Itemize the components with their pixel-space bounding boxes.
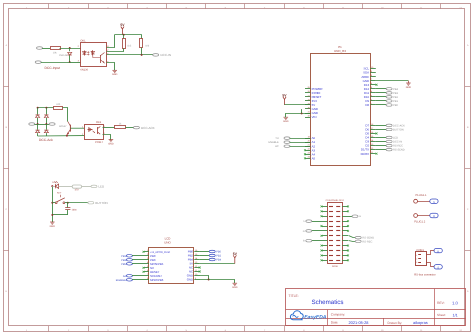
svg-text:AC: AC	[275, 145, 279, 148]
svg-text:3: 3	[416, 261, 417, 264]
wire gnd stem	[408, 81, 410, 83]
U2 left pins	[143, 249, 171, 282]
wire gnd to P1	[286, 114, 311, 118]
wire U2 GND pins	[200, 276, 209, 280]
svg-text:PB3: PB3	[121, 259, 126, 262]
svg-text:2021-05-28: 2021-05-28	[349, 320, 369, 325]
capacitor C1 100n	[65, 203, 77, 215]
svg-text:1N4148: 1N4148	[59, 54, 68, 57]
wire R4 to Q1 emitter	[63, 108, 68, 122]
svg-text:PB3: PB3	[393, 92, 398, 95]
wire Q1 collector	[66, 134, 68, 136]
wire to BUTTON flag	[68, 202, 88, 204]
svg-text:RS-SEND: RS-SEND	[393, 149, 405, 152]
svg-text:KEY: KEY	[57, 192, 62, 195]
svg-text:BUTTON: BUTTON	[393, 128, 404, 131]
svg-text:Schematics: Schematics	[312, 299, 344, 306]
svg-text:G: G	[303, 230, 305, 233]
svg-text:ENABLE: ENABLE	[268, 141, 279, 144]
wire bottom rail	[38, 135, 84, 137]
node junction	[45, 123, 47, 125]
net flags U2 left bottom	[116, 275, 144, 282]
node junction	[301, 112, 303, 114]
svg-text:TH: TH	[275, 137, 279, 140]
ground	[108, 140, 114, 146]
svg-text:PB4: PB4	[216, 259, 221, 262]
title block frame	[286, 289, 466, 326]
net flags U2 right	[200, 250, 222, 261]
svg-text:GND: GND	[232, 286, 238, 289]
svg-text:PC817: PC817	[95, 141, 103, 144]
optocoupler OK2	[82, 121, 105, 144]
net flags D7-D1	[376, 124, 405, 151]
svg-text:Drawn By:: Drawn By:	[388, 321, 403, 325]
svg-text:GND: GND	[187, 278, 193, 282]
connector pin DCC-Ack a	[29, 123, 38, 126]
plug pin PLUG1.2	[414, 214, 418, 218]
wire top rail	[38, 107, 54, 109]
wire CON1 to S port	[427, 263, 435, 267]
wire U2 5V	[200, 263, 235, 265]
EasyEDA logo	[290, 311, 326, 321]
wire U2 gnd run	[209, 280, 235, 284]
svg-text:Date:: Date:	[331, 321, 339, 325]
diode D2	[36, 108, 40, 124]
ground right of P1	[406, 83, 412, 89]
connector pin DCC-Ack b	[46, 123, 55, 126]
wire button left	[52, 202, 55, 204]
diode D5	[44, 124, 48, 136]
5V power flag at P1	[282, 93, 287, 105]
wire gnd pins join	[301, 109, 303, 113]
5V power flag at U2	[233, 252, 238, 264]
ground at P1	[283, 117, 289, 123]
svg-text:BC557: BC557	[59, 125, 67, 128]
wire plug1.2	[418, 215, 430, 217]
diode D3	[44, 108, 48, 124]
no-connect D13	[376, 84, 378, 86]
svg-text:D0/RX: D0/RX	[361, 152, 370, 156]
svg-text:GND: GND	[50, 225, 56, 228]
svg-text:RS-REC: RS-REC	[362, 240, 372, 243]
svg-text:R: R	[433, 215, 435, 218]
wire button right	[65, 202, 68, 204]
node junction output	[141, 54, 143, 56]
wire node to OK1 pin2	[70, 62, 81, 64]
svg-text:PB0: PB0	[393, 104, 398, 107]
wire OK2 pin4 out	[103, 127, 115, 129]
svg-text:S: S	[433, 201, 435, 204]
svg-text:Sheet:: Sheet:	[437, 313, 446, 317]
resistor R3 10k	[140, 35, 150, 48]
ground at U2	[232, 283, 238, 289]
svg-text:1/1: 1/1	[453, 313, 458, 317]
node junction	[66, 135, 68, 137]
svg-text:LED: LED	[393, 137, 398, 140]
svg-text:ENABLE: ENABLE	[116, 279, 127, 282]
wire 5V rail	[115, 34, 142, 36]
svg-text:DCC-ACK: DCC-ACK	[393, 124, 405, 127]
svg-text:A2: A2	[123, 275, 127, 278]
svg-text:DCC-IN: DCC-IN	[393, 141, 402, 144]
wire cap bottom	[52, 214, 68, 216]
P1 right digital pins bottom	[361, 123, 378, 156]
wire bridge mid	[38, 124, 47, 126]
svg-text:PB1: PB1	[393, 100, 398, 103]
transistor Q1 BC557	[59, 122, 84, 135]
wire 5V to P1	[285, 104, 311, 106]
net flag LED	[91, 185, 105, 189]
node junction	[51, 202, 53, 204]
svg-text:1k5: 1k5	[127, 45, 132, 48]
node junction	[69, 47, 71, 49]
svg-text:RS-bus connector: RS-bus connector	[414, 274, 436, 277]
wire OK1 pin6 output	[107, 54, 154, 56]
wire OK2 pin3 to ground	[103, 135, 111, 140]
wire P1 GND out	[376, 80, 409, 82]
pin header CON 2x12	[322, 199, 349, 268]
svg-text:PB0: PB0	[216, 251, 221, 254]
LED D6	[52, 181, 58, 188]
wire OK1 pin8 to 5V rail	[107, 35, 115, 48]
net flag BUTTON	[88, 201, 108, 205]
svg-text:S: S	[437, 267, 439, 270]
svg-text:470: 470	[75, 189, 80, 192]
svg-text:GND: GND	[112, 73, 118, 76]
net port R2	[434, 248, 442, 253]
svg-text:MISO/PB6: MISO/PB6	[150, 278, 164, 282]
svg-text:aikopras: aikopras	[413, 320, 428, 325]
resistor R6 470	[72, 185, 81, 192]
svg-text:100n: 100n	[72, 209, 78, 212]
5V power flag	[120, 23, 125, 35]
wire R1 to node	[60, 48, 81, 50]
svg-text:R: R	[437, 250, 439, 253]
svg-text:UNO_R3: UNO_R3	[334, 49, 346, 53]
node junction	[37, 107, 39, 109]
ground	[112, 70, 118, 76]
svg-text:GND: GND	[108, 143, 114, 146]
svg-text:DCC-Ack: DCC-Ack	[39, 138, 53, 142]
net flags header left	[303, 220, 322, 243]
svg-text:1: 1	[416, 254, 417, 257]
svg-text:UNO: UNO	[164, 241, 171, 245]
component U2 LCD outline	[149, 237, 194, 284]
svg-text:DG08: DG08	[332, 265, 338, 268]
node junction	[69, 61, 71, 63]
resistor R1	[51, 47, 61, 55]
wire LED to R6	[59, 186, 72, 188]
wire R5 to flag	[126, 127, 134, 129]
no-connect marks on header	[321, 205, 350, 261]
net flags D12-D8	[376, 88, 399, 107]
wire CON1 to R port	[427, 251, 435, 255]
svg-text:DCC-ACK: DCC-ACK	[141, 126, 155, 130]
U2 right pins	[187, 249, 201, 282]
node junction	[45, 107, 47, 109]
svg-text:OK2: OK2	[96, 121, 102, 124]
wire plug1.1	[418, 201, 430, 203]
node junction on rail	[123, 34, 125, 36]
svg-text:PLUG1.1: PLUG1.1	[416, 194, 428, 197]
svg-text:Company:: Company:	[331, 312, 346, 316]
resistor R5 1k	[115, 122, 126, 128]
svg-text:TITLE:: TITLE:	[289, 294, 299, 298]
svg-text:240: 240	[56, 103, 61, 106]
svg-text:1.0: 1.0	[452, 300, 458, 305]
P1 left power pins	[305, 86, 323, 119]
svg-text:PB4: PB4	[393, 88, 398, 91]
connector pin P1b (DCC input -)	[35, 61, 69, 64]
net flags U2 left top	[121, 255, 143, 266]
net flags A0-A2	[268, 137, 310, 148]
svg-text:PB1: PB1	[121, 255, 126, 258]
svg-text:DCC-Input: DCC-Input	[45, 66, 61, 70]
svg-text:PB2: PB2	[393, 96, 398, 99]
wire R6 to flag	[82, 186, 92, 188]
svg-text:LED: LED	[98, 185, 105, 189]
node junction	[67, 202, 69, 204]
svg-text:PB5: PB5	[121, 263, 126, 266]
node junction	[37, 123, 39, 125]
net port R	[430, 213, 438, 218]
svg-text:VIN: VIN	[312, 115, 317, 119]
net flag DCC-IN	[153, 53, 171, 57]
connector pin P1a (DCC input +)	[37, 47, 51, 50]
P1 analog pins	[304, 136, 316, 161]
node junction	[51, 185, 53, 187]
svg-text:REV:: REV:	[437, 301, 445, 305]
node junction	[51, 214, 53, 216]
component P1 UNO_R3 outline	[311, 45, 371, 166]
ground	[50, 222, 56, 228]
svg-text:RS-SEND: RS-SEND	[362, 237, 374, 240]
svg-text:PLUG1.2: PLUG1.2	[414, 221, 426, 224]
wire R3 to output node	[141, 48, 143, 55]
svg-text:OK1: OK1	[80, 40, 86, 43]
plug pin PLUG1.1	[414, 199, 418, 203]
svg-text:RS-REC: RS-REC	[393, 145, 403, 148]
wire OK1 pin5 to ground	[107, 63, 115, 71]
net flag DCC-ACK	[133, 126, 154, 130]
svg-text:BUTTON: BUTTON	[95, 201, 107, 205]
resistor R2 1k5	[123, 35, 132, 49]
net flags header right	[348, 215, 374, 243]
wire LED net vertical	[52, 186, 54, 222]
net port S	[430, 199, 438, 204]
P1 right digital pins top	[361, 66, 375, 107]
svg-text:6N136: 6N136	[80, 69, 88, 72]
svg-text:DCC-IN: DCC-IN	[161, 53, 172, 57]
resistor R4 240	[54, 103, 63, 110]
node junction	[208, 279, 210, 281]
diode D1 1N4148	[59, 48, 72, 62]
svg-text:GND: GND	[283, 120, 289, 123]
svg-text:H: H	[359, 215, 361, 218]
pushbutton S1	[55, 192, 65, 204]
svg-text:A5: A5	[312, 156, 316, 160]
svg-text:GND: GND	[406, 86, 412, 89]
net port S2	[434, 265, 442, 270]
diode D4	[36, 124, 40, 136]
svg-text:D8: D8	[365, 103, 369, 107]
svg-text:PB2: PB2	[216, 255, 221, 258]
op­tocoupler OK1	[78, 40, 110, 72]
svg-text:2: 2	[416, 258, 417, 261]
svg-text:CON-PINHD-2X12: CON-PINHD-2X12	[326, 199, 345, 202]
svg-text:EasyEDA: EasyEDA	[304, 315, 327, 321]
connector CON1	[416, 249, 427, 266]
wire R2 to OK1 pin7	[107, 49, 124, 52]
